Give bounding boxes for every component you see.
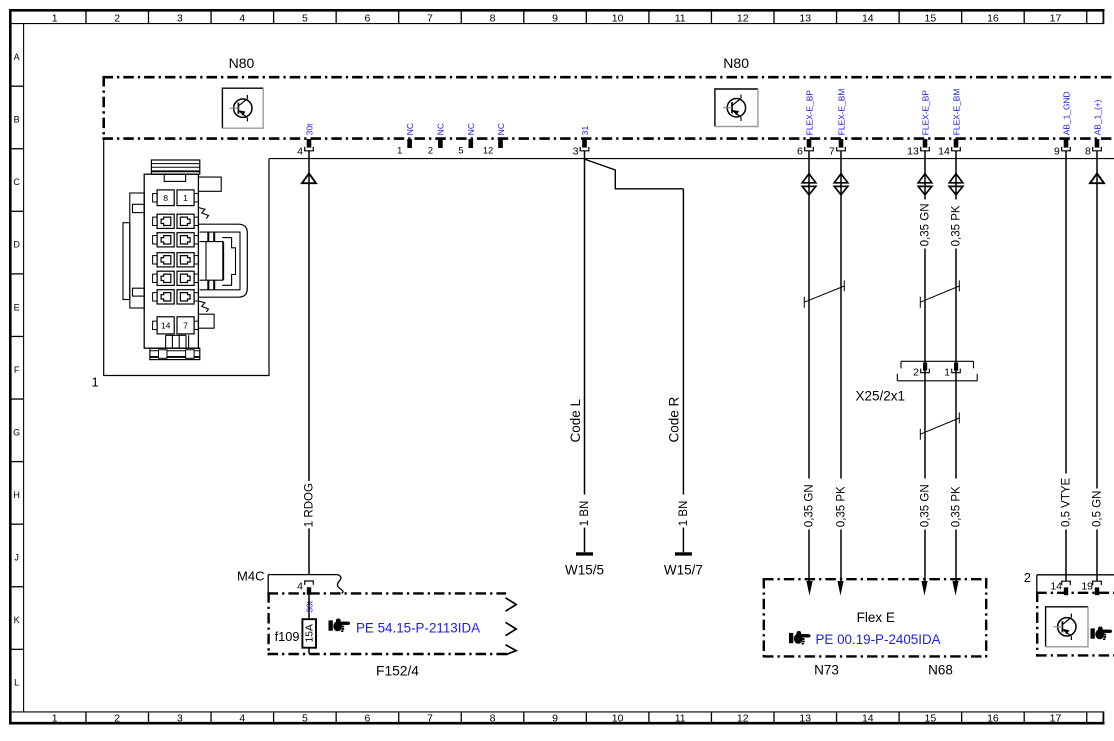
svg-text:7: 7	[829, 145, 835, 157]
svg-text:1: 1	[397, 146, 402, 156]
svg-text:1: 1	[92, 374, 99, 389]
svg-text:1 BN: 1 BN	[678, 501, 690, 527]
svg-text:3: 3	[177, 13, 183, 25]
svg-text:H: H	[13, 490, 20, 500]
svg-text:2: 2	[114, 13, 120, 25]
svg-text:4: 4	[239, 713, 245, 725]
svg-text:Flex E: Flex E	[857, 610, 895, 625]
svg-text:5: 5	[458, 146, 463, 156]
svg-text:16: 16	[987, 13, 999, 25]
svg-text:2: 2	[1024, 570, 1031, 585]
svg-text:14: 14	[862, 713, 874, 725]
svg-text:13: 13	[799, 713, 811, 725]
svg-text:2: 2	[913, 367, 919, 379]
svg-text:10: 10	[612, 713, 624, 725]
svg-text:FLEX-E_BM: FLEX-E_BM	[836, 89, 846, 136]
svg-text:14: 14	[1050, 581, 1062, 593]
svg-text:6: 6	[797, 145, 803, 157]
svg-text:C: C	[13, 177, 20, 187]
svg-text:12: 12	[483, 146, 493, 156]
svg-text:A: A	[14, 52, 20, 62]
svg-text:4: 4	[297, 145, 303, 157]
svg-text:K: K	[14, 615, 20, 625]
svg-text:7: 7	[427, 13, 433, 25]
svg-text:8: 8	[1085, 145, 1091, 157]
svg-text:8: 8	[163, 193, 168, 203]
svg-text:6: 6	[365, 713, 371, 725]
svg-text:W15/5: W15/5	[565, 562, 604, 577]
svg-text:F152/4: F152/4	[376, 664, 419, 679]
svg-text:1: 1	[52, 713, 58, 725]
svg-text:Code L: Code L	[568, 398, 583, 442]
svg-text:N73: N73	[814, 663, 839, 678]
svg-text:7: 7	[427, 713, 433, 725]
svg-text:1 RDOG: 1 RDOG	[304, 483, 316, 527]
svg-text:1: 1	[52, 13, 58, 25]
svg-text:14: 14	[161, 321, 171, 331]
svg-text:0,5 VTYE: 0,5 VTYE	[1061, 477, 1073, 527]
svg-text:17: 17	[1050, 713, 1062, 725]
svg-text:15: 15	[925, 713, 937, 725]
svg-text:0,35 PK: 0,35 PK	[951, 486, 963, 527]
svg-text:7: 7	[183, 321, 188, 331]
svg-text:Code R: Code R	[667, 396, 682, 442]
svg-text:FLEX-E_BP: FLEX-E_BP	[804, 90, 814, 136]
svg-text:N80: N80	[723, 55, 749, 71]
svg-text:11: 11	[675, 713, 686, 725]
svg-text:30t: 30t	[304, 123, 314, 135]
svg-text:14: 14	[938, 145, 950, 157]
svg-text:0,35 GN: 0,35 GN	[920, 484, 932, 527]
svg-text:W15/7: W15/7	[664, 562, 703, 577]
svg-text:PE 54.15-P-2113IDA: PE 54.15-P-2113IDA	[356, 620, 480, 635]
svg-text:8: 8	[490, 13, 496, 25]
svg-text:0,35 PK: 0,35 PK	[951, 205, 963, 246]
svg-text:9: 9	[1054, 145, 1060, 157]
svg-text:AB_1_GND: AB_1_GND	[1061, 91, 1071, 135]
svg-text:2: 2	[114, 713, 120, 725]
svg-text:19: 19	[1081, 581, 1093, 593]
svg-text:6: 6	[365, 13, 371, 25]
svg-text:D: D	[13, 240, 20, 250]
svg-text:14: 14	[862, 13, 874, 25]
svg-text:2: 2	[428, 146, 433, 156]
svg-text:0,35 PK: 0,35 PK	[836, 486, 848, 527]
svg-text:NC: NC	[405, 123, 415, 135]
svg-text:11: 11	[675, 13, 686, 25]
svg-text:B: B	[14, 115, 20, 125]
svg-text:NC: NC	[496, 123, 506, 135]
svg-text:M4C: M4C	[237, 569, 264, 584]
svg-text:10: 10	[612, 13, 624, 25]
svg-text:5: 5	[302, 713, 308, 725]
svg-text:NC: NC	[436, 123, 446, 135]
svg-text:NC: NC	[466, 123, 476, 135]
svg-text:13: 13	[907, 145, 919, 157]
svg-text:17: 17	[1050, 13, 1062, 25]
svg-text:5: 5	[302, 13, 308, 25]
svg-text:4: 4	[239, 13, 245, 25]
svg-text:X25/2x1: X25/2x1	[856, 389, 906, 404]
svg-text:4: 4	[297, 581, 303, 593]
svg-text:0,5 GN: 0,5 GN	[1092, 491, 1104, 527]
svg-text:12: 12	[737, 13, 749, 25]
svg-text:0,35 GN: 0,35 GN	[804, 484, 816, 527]
svg-text:F: F	[14, 365, 20, 375]
svg-text:FLEX-E_BM: FLEX-E_BM	[951, 89, 961, 136]
svg-text:N80: N80	[229, 55, 255, 71]
svg-text:N68: N68	[928, 663, 953, 678]
svg-text:J: J	[14, 553, 19, 563]
svg-text:1 BN: 1 BN	[579, 501, 591, 527]
svg-text:G: G	[13, 427, 20, 437]
svg-text:E: E	[14, 302, 20, 312]
svg-text:8: 8	[490, 713, 496, 725]
svg-text:1: 1	[944, 367, 950, 379]
svg-text:9: 9	[552, 13, 558, 25]
svg-text:16: 16	[987, 713, 999, 725]
svg-text:3: 3	[177, 713, 183, 725]
svg-text:15A: 15A	[305, 624, 316, 642]
svg-text:13: 13	[799, 13, 811, 25]
svg-text:FLEX-E_BP: FLEX-E_BP	[920, 90, 930, 136]
svg-text:9: 9	[552, 713, 558, 725]
svg-text:1: 1	[183, 193, 188, 203]
svg-text:12: 12	[737, 713, 749, 725]
svg-text:AB_1_(+): AB_1_(+)	[1092, 99, 1102, 135]
svg-text:3: 3	[573, 145, 579, 157]
svg-text:0,35 GN: 0,35 GN	[920, 203, 932, 246]
svg-text:15: 15	[925, 13, 937, 25]
svg-text:PE 00.19-P-2405IDA: PE 00.19-P-2405IDA	[816, 632, 941, 647]
svg-text:L: L	[14, 678, 19, 688]
svg-text:31: 31	[580, 126, 590, 136]
svg-text:f109: f109	[275, 629, 300, 644]
